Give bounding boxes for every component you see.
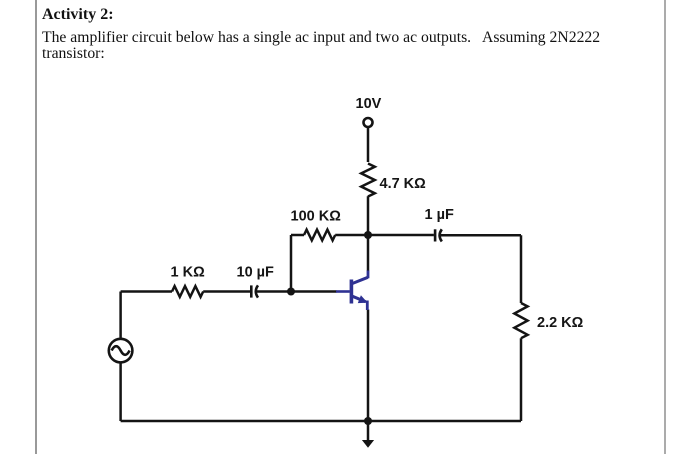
svg-text:100 KΩ: 100 KΩ xyxy=(291,209,342,225)
svg-text:4.7 KΩ: 4.7 KΩ xyxy=(380,176,427,192)
svg-text:2.2 KΩ: 2.2 KΩ xyxy=(537,315,584,331)
svg-text:10 µF: 10 µF xyxy=(237,265,275,281)
svg-text:10V: 10V xyxy=(356,96,382,112)
svg-text:1 KΩ: 1 KΩ xyxy=(171,265,206,281)
svg-text:1 µF: 1 µF xyxy=(425,207,454,223)
